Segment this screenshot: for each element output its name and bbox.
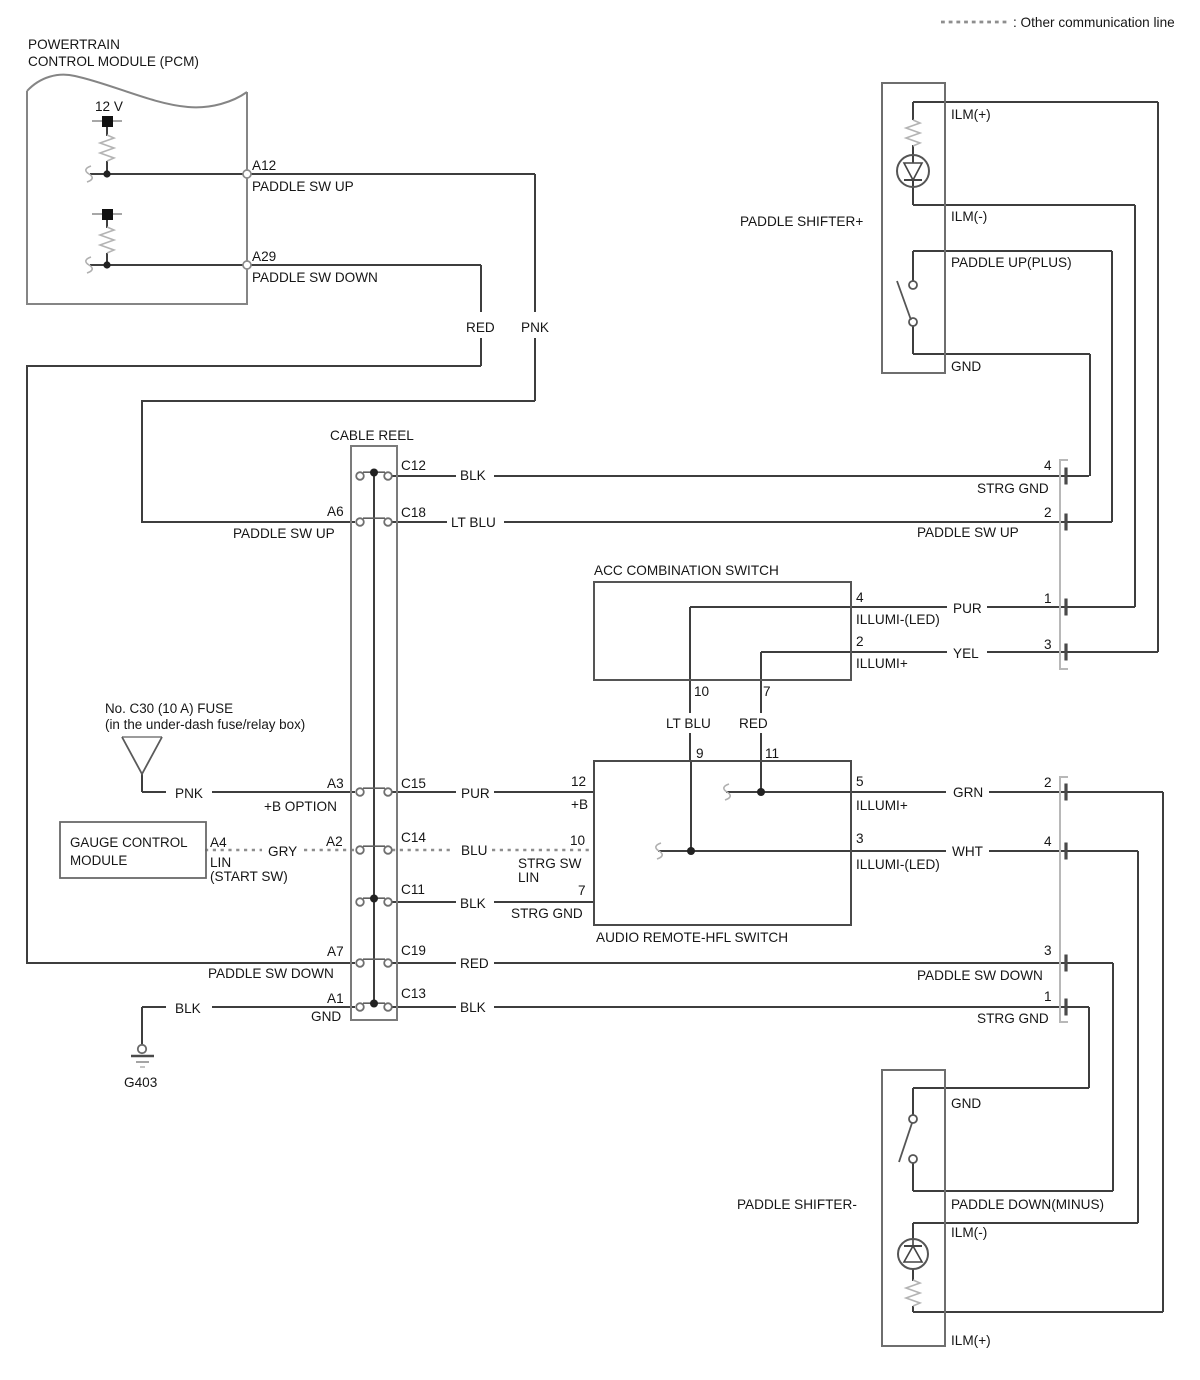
svg-text:BLK: BLK bbox=[175, 1001, 201, 1016]
svg-text:BLK: BLK bbox=[460, 1000, 486, 1015]
svg-text:PADDLE SHIFTER+: PADDLE SHIFTER+ bbox=[740, 214, 863, 229]
svg-text:STRG GND: STRG GND bbox=[977, 481, 1049, 496]
svg-text:LIN: LIN bbox=[518, 870, 539, 885]
svg-text:(in the under-dash fuse/relay: (in the under-dash fuse/relay box) bbox=[105, 717, 305, 732]
svg-text:7: 7 bbox=[578, 883, 586, 898]
svg-text:C14: C14 bbox=[401, 830, 426, 845]
svg-text:G403: G403 bbox=[124, 1075, 157, 1090]
svg-text:2: 2 bbox=[1044, 775, 1052, 790]
svg-text:BLK: BLK bbox=[460, 896, 486, 911]
svg-text:PNK: PNK bbox=[521, 320, 549, 335]
svg-text:3: 3 bbox=[856, 831, 864, 846]
svg-text:PNK: PNK bbox=[175, 786, 203, 801]
svg-text:4: 4 bbox=[856, 590, 864, 605]
svg-text:C13: C13 bbox=[401, 986, 426, 1001]
svg-text:12 V: 12 V bbox=[95, 99, 123, 114]
svg-text:A2: A2 bbox=[326, 834, 343, 849]
svg-text:3: 3 bbox=[1044, 637, 1052, 652]
svg-text:WHT: WHT bbox=[952, 844, 983, 859]
svg-text:(START SW): (START SW) bbox=[210, 869, 288, 884]
svg-text:C19: C19 bbox=[401, 943, 426, 958]
svg-text:CABLE REEL: CABLE REEL bbox=[330, 428, 414, 443]
svg-text:PADDLE SW DOWN: PADDLE SW DOWN bbox=[208, 966, 334, 981]
svg-text:CONTROL MODULE (PCM): CONTROL MODULE (PCM) bbox=[28, 54, 199, 69]
svg-text:BLK: BLK bbox=[460, 468, 486, 483]
svg-text:ILM(-): ILM(-) bbox=[951, 209, 987, 224]
svg-text:ILLUMI-(LED): ILLUMI-(LED) bbox=[856, 857, 940, 872]
svg-text:PADDLE SW UP: PADDLE SW UP bbox=[252, 179, 354, 194]
svg-text:C12: C12 bbox=[401, 458, 426, 473]
svg-text:GND: GND bbox=[951, 1096, 981, 1111]
svg-text:4: 4 bbox=[1044, 458, 1052, 473]
svg-text:1: 1 bbox=[1044, 989, 1052, 1004]
svg-text:12: 12 bbox=[571, 774, 586, 789]
svg-text:MODULE: MODULE bbox=[70, 853, 127, 868]
svg-text:ILM(+): ILM(+) bbox=[951, 107, 991, 122]
svg-text:ILM(+): ILM(+) bbox=[951, 1333, 991, 1348]
svg-text:+B: +B bbox=[571, 797, 588, 812]
svg-text:C18: C18 bbox=[401, 505, 426, 520]
svg-text:PADDLE SHIFTER-: PADDLE SHIFTER- bbox=[737, 1197, 857, 1212]
svg-text:PADDLE DOWN(MINUS): PADDLE DOWN(MINUS) bbox=[951, 1197, 1104, 1212]
svg-text:7: 7 bbox=[763, 684, 771, 699]
svg-text:C11: C11 bbox=[401, 882, 425, 897]
svg-text:PADDLE SW DOWN: PADDLE SW DOWN bbox=[917, 968, 1043, 983]
svg-text:BLU: BLU bbox=[461, 843, 487, 858]
svg-text:GND: GND bbox=[951, 359, 981, 374]
svg-text:4: 4 bbox=[1044, 834, 1052, 849]
svg-text:A1: A1 bbox=[327, 991, 344, 1006]
svg-text:: Other communication line: : Other communication line bbox=[1013, 15, 1175, 30]
svg-text:A12: A12 bbox=[252, 158, 276, 173]
svg-text:11: 11 bbox=[765, 746, 779, 761]
svg-text:A29: A29 bbox=[252, 249, 276, 264]
svg-text:LT BLU: LT BLU bbox=[666, 716, 711, 731]
svg-text:GND: GND bbox=[311, 1009, 341, 1024]
svg-text:10: 10 bbox=[570, 833, 586, 848]
svg-text:1: 1 bbox=[1044, 591, 1052, 606]
svg-text:10: 10 bbox=[694, 684, 710, 699]
svg-text:ILM(-): ILM(-) bbox=[951, 1225, 987, 1240]
svg-text:No. C30 (10 A) FUSE: No. C30 (10 A) FUSE bbox=[105, 701, 233, 716]
svg-text:PADDLE SW DOWN: PADDLE SW DOWN bbox=[252, 270, 378, 285]
svg-text:YEL: YEL bbox=[953, 646, 979, 661]
svg-text:AUDIO REMOTE-HFL SWITCH: AUDIO REMOTE-HFL SWITCH bbox=[596, 930, 788, 945]
svg-text:+B OPTION: +B OPTION bbox=[264, 799, 337, 814]
svg-text:C15: C15 bbox=[401, 776, 426, 791]
svg-text:9: 9 bbox=[696, 746, 704, 761]
svg-text:2: 2 bbox=[1044, 505, 1052, 520]
svg-text:LT BLU: LT BLU bbox=[451, 515, 496, 530]
svg-text:STRG GND: STRG GND bbox=[977, 1011, 1049, 1026]
svg-text:5: 5 bbox=[856, 774, 864, 789]
svg-text:ILLUMI-(LED): ILLUMI-(LED) bbox=[856, 612, 940, 627]
svg-text:GAUGE CONTROL: GAUGE CONTROL bbox=[70, 835, 188, 850]
svg-text:PADDLE UP(PLUS): PADDLE UP(PLUS) bbox=[951, 255, 1072, 270]
svg-text:PUR: PUR bbox=[461, 786, 490, 801]
svg-text:ILLUMI+: ILLUMI+ bbox=[856, 656, 908, 671]
svg-text:STRG SW: STRG SW bbox=[518, 856, 582, 871]
svg-text:LIN: LIN bbox=[210, 855, 231, 870]
svg-text:GRY: GRY bbox=[268, 844, 297, 859]
svg-text:ILLUMI+: ILLUMI+ bbox=[856, 798, 908, 813]
svg-text:PADDLE SW UP: PADDLE SW UP bbox=[917, 525, 1019, 540]
svg-text:ACC COMBINATION SWITCH: ACC COMBINATION SWITCH bbox=[594, 563, 779, 578]
svg-text:A6: A6 bbox=[327, 504, 344, 519]
svg-text:3: 3 bbox=[1044, 943, 1052, 958]
svg-text:RED: RED bbox=[460, 956, 489, 971]
svg-text:GRN: GRN bbox=[953, 785, 983, 800]
svg-text:STRG GND: STRG GND bbox=[511, 906, 583, 921]
svg-text:PADDLE SW UP: PADDLE SW UP bbox=[233, 526, 335, 541]
svg-text:2: 2 bbox=[856, 634, 864, 649]
svg-text:A7: A7 bbox=[327, 944, 344, 959]
svg-text:RED: RED bbox=[466, 320, 495, 335]
svg-text:POWERTRAIN: POWERTRAIN bbox=[28, 37, 120, 52]
svg-text:PUR: PUR bbox=[953, 601, 982, 616]
svg-text:RED: RED bbox=[739, 716, 768, 731]
svg-text:A3: A3 bbox=[327, 776, 344, 791]
svg-text:A4: A4 bbox=[210, 835, 227, 850]
